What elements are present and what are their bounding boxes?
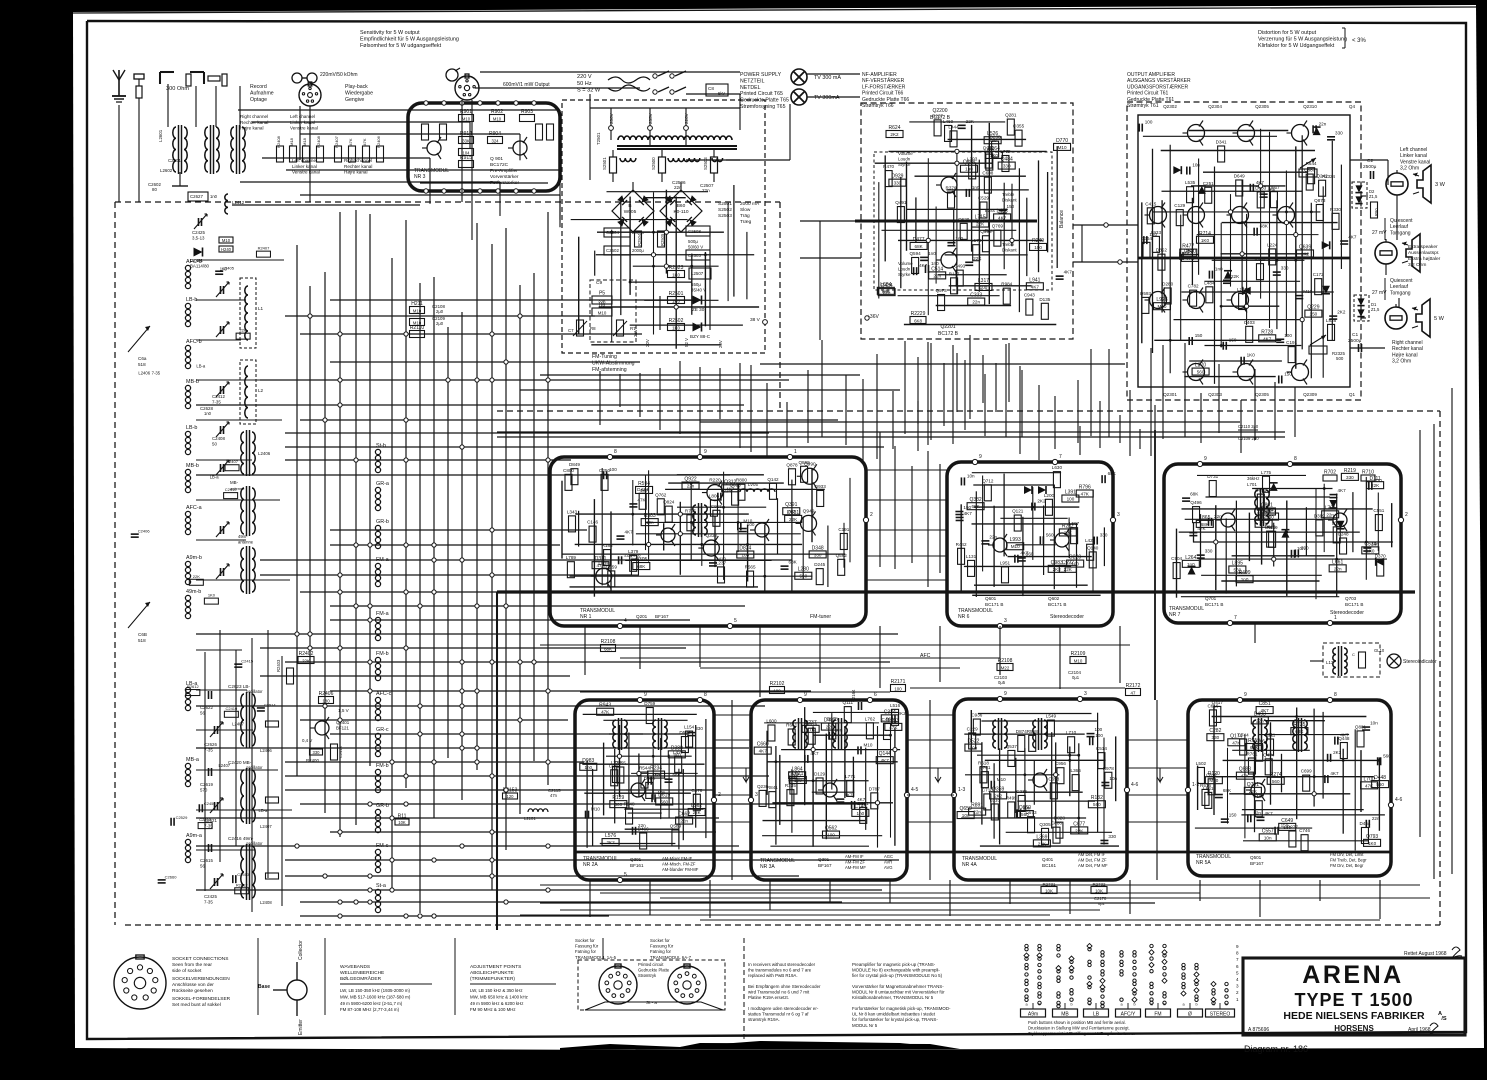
svg-text:Q869: Q869 (798, 460, 810, 465)
svg-text:4K7: 4K7 (1031, 284, 1040, 289)
svg-text:C2425: C2425 (204, 894, 217, 899)
svg-text:LB-a: LB-a (196, 363, 206, 368)
svg-text:R2408: R2408 (316, 135, 321, 148)
svg-text:Q355: Q355 (1013, 124, 1025, 129)
svg-text:D277: D277 (1287, 824, 1298, 829)
svg-text:2K2: 2K2 (1037, 499, 1046, 504)
svg-text:Vorverstärker für Magnettonabn: Vorverstärker für Magnettonabnehmer TRAN… (852, 984, 944, 989)
svg-text:FM-Tuning: FM-Tuning (592, 354, 617, 360)
svg-text:Q602: Q602 (1048, 596, 1060, 601)
svg-text:518: 518 (138, 638, 146, 643)
svg-text:HEDE NIELSENS FABRIKER: HEDE NIELSENS FABRIKER (1283, 1010, 1425, 1022)
svg-text:R544: R544 (639, 766, 650, 771)
svg-text:7-35: 7-35 (204, 900, 213, 905)
svg-text:M22: M22 (1001, 666, 1010, 671)
svg-text:NETDEL: NETDEL (740, 85, 761, 91)
svg-text:C2553: C2553 (237, 872, 250, 877)
svg-text:150: 150 (1229, 813, 1237, 818)
svg-text:Set med bunt af sokkel: Set med bunt af sokkel (172, 1002, 221, 1008)
svg-text:68K: 68K (1108, 471, 1117, 476)
svg-text:330: 330 (1003, 164, 1011, 169)
svg-text:BF167: BF167 (1250, 861, 1264, 866)
svg-text:b: b (1102, 1003, 1104, 1007)
svg-text:Q142: Q142 (767, 477, 779, 482)
svg-text:Aufnahme: Aufnahme (250, 90, 274, 96)
svg-text:3: 3 (1004, 618, 1007, 624)
svg-text:TYPE T 1500: TYPE T 1500 (1294, 990, 1413, 1010)
svg-text:330: 330 (313, 750, 321, 755)
svg-text:R565: R565 (745, 565, 756, 570)
svg-text:M10: M10 (598, 311, 607, 316)
svg-text:Aussenlautspr.: Aussenlautspr. (1408, 250, 1439, 256)
svg-text:L762: L762 (865, 716, 876, 721)
svg-text:FM 87-108 MHz (2,77-: FM 87-108 MHz (2,77-3,44 m) (340, 1007, 400, 1012)
svg-text:TRANSMODUL: TRANSMODUL (414, 168, 449, 174)
svg-text:10n: 10n (962, 813, 970, 818)
svg-text:L224: L224 (1267, 242, 1278, 247)
svg-text:Q2302: Q2302 (1163, 104, 1177, 109)
svg-text:Q703: Q703 (1345, 596, 1357, 601)
svg-text:R2110: R2110 (410, 325, 425, 331)
svg-text:FM: FM (1154, 1012, 1161, 1018)
svg-text:9: 9 (1244, 692, 1247, 698)
svg-text:25V: 25V (633, 329, 638, 337)
svg-text:B60: B60 (677, 203, 686, 209)
svg-text:C2502: C2502 (606, 248, 619, 253)
svg-text:80: 80 (152, 187, 157, 192)
svg-text:HORSENS: HORSENS (1334, 1024, 1374, 1033)
svg-text:Left channel: Left channel (290, 114, 315, 119)
svg-text:L941: L941 (1029, 277, 1040, 283)
svg-text:Socket for: Socket for (650, 938, 670, 943)
svg-text:Træg: Træg (740, 219, 752, 225)
svg-text:9: 9 (1236, 944, 1239, 949)
svg-text:C478: C478 (691, 788, 702, 793)
svg-text:Q382: Q382 (969, 497, 981, 503)
svg-text:10K: 10K (398, 820, 406, 825)
svg-text:LB-b: LB-b (186, 425, 197, 431)
svg-text:C2456: C2456 (204, 801, 217, 806)
svg-text:9: 9 (644, 692, 647, 698)
svg-text:C699: C699 (1301, 769, 1312, 774)
svg-text:Q949: Q949 (803, 508, 815, 514)
svg-text:Q922: Q922 (684, 477, 696, 483)
svg-text:22n: 22n (1319, 121, 1327, 126)
svg-text:TV 300mA: TV 300mA (814, 95, 840, 101)
svg-text:Styrke: Styrke (898, 272, 911, 277)
svg-text:47K: 47K (1081, 491, 1090, 496)
svg-text:1-3: 1-3 (958, 787, 965, 793)
svg-text:1n0: 1n0 (928, 251, 936, 256)
svg-text:C886: C886 (1051, 821, 1062, 826)
svg-text:4-6: 4-6 (1395, 797, 1402, 803)
svg-text:8: 8 (1236, 951, 1239, 956)
svg-text:BF167: BF167 (655, 614, 669, 619)
svg-text:AFC-a: AFC-a (186, 505, 202, 511)
svg-text:L366: L366 (1071, 768, 1082, 773)
svg-text:S = 32 W: S = 32 W (577, 88, 601, 94)
svg-text:300 Ohm: 300 Ohm (166, 86, 189, 92)
svg-text:560: 560 (660, 799, 668, 804)
svg-text:22K: 22K (1231, 274, 1240, 279)
svg-text:NF-VERSTÄRKER: NF-VERSTÄRKER (862, 77, 905, 84)
svg-text:AM-blander FM-MF: AM-blander FM-MF (662, 867, 699, 872)
svg-text:side of socket: side of socket (172, 968, 202, 974)
svg-text:7: 7 (1234, 615, 1237, 621)
svg-text:R714: R714 (1199, 231, 1211, 237)
svg-text:100: 100 (1095, 733, 1103, 738)
svg-text:1n0: 1n0 (1215, 267, 1223, 272)
svg-text:R2406: R2406 (376, 135, 381, 148)
svg-text:b: b (1071, 1003, 1073, 1007)
svg-text:100: 100 (1067, 497, 1075, 502)
svg-text:fier for crystal pick-up (TRAN: fier for crystal pick-up (TRANSMODULE No… (852, 973, 943, 978)
svg-text:ABGLEICHPUNKTE: ABGLEICHPUNKTE (470, 970, 514, 976)
svg-text:LV05: LV05 (748, 482, 758, 487)
svg-text:ADJUSTMENT POINTS: ADJUSTMENT POINTS (470, 964, 521, 970)
svg-text:3,2 Ohm: 3,2 Ohm (1408, 262, 1426, 268)
svg-text:0μ1: 0μ1 (1072, 675, 1080, 680)
svg-text:GL10: GL10 (1374, 648, 1385, 653)
svg-text:R2102: R2102 (770, 681, 785, 687)
svg-text:Pre-Amplifier: Pre-Amplifier (490, 168, 518, 174)
svg-text:AUSGANGS VERSTÄRKER: AUSGANGS VERSTÄRKER (1127, 77, 1191, 84)
svg-text:L303: L303 (967, 156, 978, 161)
svg-text:C251: C251 (1203, 181, 1214, 186)
svg-text:C235: C235 (1016, 789, 1027, 794)
svg-text:Linker kanal: Linker kanal (1400, 153, 1427, 159)
svg-text:L538: L538 (598, 561, 609, 567)
svg-text:GR-a: GR-a (376, 481, 389, 487)
svg-text:Rechter kanal: Rechter kanal (344, 164, 372, 169)
svg-text:C172: C172 (1313, 272, 1324, 277)
svg-text:L369: L369 (1036, 834, 1047, 840)
svg-text:Verzerrung für 5 W Ausgangslei: Verzerrung für 5 W Ausgangsleistung (1258, 37, 1347, 43)
svg-text:R618: R618 (978, 760, 989, 765)
svg-text:L549: L549 (1046, 714, 1057, 719)
svg-text:22n: 22n (1334, 566, 1342, 571)
svg-text:7: 7 (1059, 454, 1062, 460)
svg-text:C2503: C2503 (688, 253, 701, 258)
svg-text:Q301: Q301 (630, 857, 642, 862)
svg-text:Q496: Q496 (1190, 500, 1202, 505)
svg-text:2: 2 (870, 512, 873, 518)
svg-text:D341: D341 (1216, 140, 1227, 145)
svg-text:A9m-b: A9m-b (186, 555, 202, 561)
svg-text:D522: D522 (967, 739, 979, 745)
svg-text:MB-b: MB-b (186, 463, 199, 469)
svg-text:R841: R841 (767, 785, 778, 790)
svg-text:150: 150 (1195, 333, 1203, 338)
svg-text:UDGANGSFORSTÆRKER: UDGANGSFORSTÆRKER (1127, 84, 1189, 90)
svg-text:10n: 10n (1264, 835, 1272, 840)
svg-text:L2601: L2601 (158, 129, 163, 142)
svg-text:L771: L771 (845, 774, 856, 779)
svg-text:C915: C915 (711, 504, 722, 509)
svg-text:R8: R8 (590, 326, 596, 331)
svg-text:Play-back: Play-back (345, 84, 368, 90)
svg-text:1n0: 1n0 (584, 765, 592, 770)
svg-text:5: 5 (1236, 970, 1239, 975)
svg-text:L562: L562 (691, 803, 702, 809)
svg-text:D448: D448 (1374, 775, 1386, 781)
svg-text:ARENA: ARENA (1302, 961, 1403, 989)
svg-text:M10: M10 (863, 742, 872, 747)
svg-text:560: 560 (1383, 753, 1391, 758)
svg-text:10n: 10n (1192, 163, 1200, 168)
svg-text:Q601: Q601 (985, 596, 997, 601)
svg-text:Klirfaktor for 5 W Udgangseffe: Klirfaktor for 5 W Udgangseffekt (1258, 43, 1335, 49)
svg-text:BC172 B: BC172 B (938, 331, 959, 337)
svg-text:A9m-a: A9m-a (186, 833, 202, 839)
svg-text:35/40 V: 35/40 V (691, 288, 706, 293)
svg-text:C2: C2 (1367, 158, 1373, 164)
svg-text:Q305: Q305 (1039, 822, 1051, 827)
svg-text:36kHz: 36kHz (1247, 476, 1259, 481)
svg-text:560: 560 (1197, 370, 1205, 375)
svg-text:47: 47 (1131, 691, 1136, 696)
svg-text:3,2 Ohm: 3,2 Ohm (1392, 359, 1411, 365)
svg-text:BC171 B: BC171 B (1345, 602, 1363, 607)
svg-text:Q121: Q121 (1012, 509, 1024, 514)
svg-text:b: b (1164, 1003, 1166, 1007)
svg-text:Q229: Q229 (1307, 305, 1319, 311)
svg-text:R2407: R2407 (334, 135, 339, 148)
svg-text:Q111: Q111 (843, 700, 854, 705)
svg-text:68K: 68K (789, 560, 798, 565)
svg-text:WAVEBANDS: WAVEBANDS (340, 964, 370, 970)
svg-text:Q501: Q501 (1250, 855, 1262, 860)
svg-text:A 875696: A 875696 (1248, 1027, 1269, 1033)
svg-text:22n: 22n (638, 823, 646, 828)
svg-text:NR 4A: NR 4A (962, 862, 977, 868)
svg-text:R132: R132 (1091, 795, 1103, 801)
svg-text:(TRIMMEPUNKTER): (TRIMMEPUNKTER) (470, 976, 515, 982)
svg-text:WELLENBEREICHE: WELLENBEREICHE (340, 970, 384, 976)
svg-text:2K2: 2K2 (606, 840, 615, 845)
svg-text:b: b (1196, 1003, 1198, 1007)
svg-text:2K2: 2K2 (1337, 310, 1346, 315)
svg-text:Loudn: Loudn (898, 157, 911, 162)
svg-text:150: 150 (1263, 510, 1271, 515)
svg-text:R800: R800 (736, 478, 747, 483)
svg-text:100: 100 (827, 833, 835, 838)
svg-text:FM 90 MHz & 100 MHz: FM 90 MHz & 100 MHz (470, 1007, 516, 1012)
svg-text:L2406: L2406 (138, 370, 150, 375)
svg-text:3 W: 3 W (1435, 182, 1446, 188)
svg-text:MODUL Nr 8 umtauschbar mit Vor: MODUL Nr 8 umtauschbar mit Vorverstärker… (852, 990, 945, 995)
svg-text:Q281: Q281 (1005, 113, 1017, 118)
svg-text:C2601: C2601 (168, 158, 181, 163)
svg-text:Träg: Träg (740, 213, 750, 219)
svg-text:oscillator: oscillator (246, 841, 263, 846)
svg-text:C943: C943 (1024, 293, 1035, 298)
svg-text:324: 324 (492, 139, 500, 144)
svg-text:L684: L684 (880, 282, 891, 288)
svg-text:4-5: 4-5 (911, 787, 918, 793)
svg-text:C2508: C2508 (688, 229, 701, 234)
svg-text:R2403: R2403 (276, 659, 281, 672)
svg-text:C658: C658 (1048, 776, 1059, 781)
svg-text:M10: M10 (413, 309, 422, 314)
svg-text:L270: L270 (1195, 363, 1206, 369)
svg-text:Q1: Q1 (1349, 392, 1356, 397)
svg-text:22K: 22K (789, 517, 798, 522)
svg-text:4K7: 4K7 (1330, 771, 1339, 776)
svg-text:3: 3 (1084, 691, 1087, 697)
svg-text:BF167: BF167 (818, 863, 832, 868)
svg-text:L1: L1 (258, 306, 264, 311)
svg-text:Q2305: Q2305 (1255, 104, 1269, 109)
svg-text:Distortion for 5 W output: Distortion for 5 W output (1258, 30, 1317, 36)
svg-text:R117: R117 (949, 271, 960, 276)
svg-text:Z1,5: Z1,5 (1369, 194, 1378, 199)
svg-text:Kristalltonabnehmer, TRANSMODU: Kristalltonabnehmer, TRANSMODUL Nr 5 (852, 995, 934, 1000)
svg-text:5kV: 5kV (718, 91, 725, 96)
svg-text:Fassung für: Fassung für (575, 944, 599, 949)
svg-text:L2406: L2406 (258, 451, 271, 456)
svg-text:Q4: Q4 (1349, 104, 1356, 109)
svg-text:S2500: S2500 (651, 157, 656, 170)
svg-text:Printed Circuit T61: Printed Circuit T61 (1127, 91, 1169, 97)
svg-text:LB: LB (1093, 1012, 1100, 1018)
svg-text:Gedruckte Platte T66: Gedruckte Platte T66 (862, 97, 909, 103)
svg-text:Gedruckte Platte: Gedruckte Platte (638, 967, 670, 972)
svg-text:L13: L13 (1326, 660, 1334, 665)
svg-text:100: 100 (1284, 333, 1292, 338)
svg-text:Printed Circuit T65: Printed Circuit T65 (740, 91, 783, 97)
svg-text:1-2: 1-2 (1192, 782, 1199, 788)
svg-text:330: 330 (1205, 549, 1213, 554)
svg-text:68K: 68K (604, 647, 612, 652)
svg-text:C2619: C2619 (200, 782, 213, 787)
svg-text:Left channel: Left channel (292, 158, 317, 163)
svg-text:C2627: C2627 (190, 194, 203, 199)
svg-text:Right channel: Right channel (240, 114, 268, 119)
svg-text:Q2310: Q2310 (1303, 104, 1317, 109)
svg-text:< 3%: < 3% (1352, 38, 1367, 44)
svg-text:St-a: St-a (376, 883, 386, 889)
svg-text:6K8: 6K8 (914, 319, 922, 324)
svg-text:4K7: 4K7 (1337, 488, 1346, 493)
svg-text:R2402: R2402 (299, 651, 314, 657)
svg-text:22K: 22K (976, 222, 985, 227)
svg-text:5: 5 (734, 618, 737, 624)
svg-text:MW, MB 517-1600 kHz (187-580: MW, MB 517-1600 kHz (187-580 m) (340, 994, 411, 999)
svg-text:T2501: T2501 (596, 132, 601, 145)
svg-text:Optage: Optage (250, 97, 267, 103)
svg-text:C1: C1 (1352, 332, 1358, 338)
svg-text:D824: D824 (739, 546, 751, 552)
svg-text:Venstre kanal: Venstre kanal (290, 126, 318, 131)
svg-text:the transmodules no 6 and 7 ar: the transmodules no 6 and 7 are (748, 968, 812, 973)
svg-text:BF161: BF161 (630, 863, 644, 868)
svg-text:D759: D759 (644, 701, 655, 706)
svg-text:AVG: AVG (884, 865, 893, 870)
svg-text:Højre kanal: Højre kanal (1392, 352, 1418, 358)
svg-text:33K: 33K (462, 139, 470, 144)
svg-text:NF-AMPLIFIER: NF-AMPLIFIER (862, 72, 897, 78)
svg-text:BC161: BC161 (1042, 863, 1056, 868)
svg-text:C551: C551 (1373, 508, 1384, 513)
svg-text:Preamplifier for magnetic pick: Preamplifier for magnetic pick-up (TRANS… (852, 962, 936, 967)
svg-text:100: 100 (773, 689, 781, 694)
svg-text:D454: D454 (1359, 821, 1370, 826)
svg-text:1: 1 (1334, 615, 1337, 621)
svg-text:L703: L703 (888, 718, 899, 724)
svg-text:L131: L131 (966, 554, 977, 559)
svg-text:LB-b: LB-b (186, 297, 197, 303)
svg-text:Q639: Q639 (1299, 244, 1311, 250)
svg-text:H2408: H2408 (276, 135, 281, 148)
svg-text:C851: C851 (1259, 701, 1271, 707)
svg-text:Z1,5: Z1,5 (1371, 307, 1380, 312)
svg-text:TV 300 mA: TV 300 mA (814, 75, 841, 81)
svg-text:L701: L701 (1247, 482, 1257, 487)
svg-text:Q594: Q594 (909, 251, 921, 256)
svg-text:/S: /S (1441, 1016, 1447, 1022)
svg-text:b: b (1226, 1003, 1228, 1007)
svg-text:Q2309: Q2309 (1303, 392, 1317, 397)
svg-text:150: 150 (1007, 204, 1015, 209)
svg-text:Q401: Q401 (1042, 857, 1054, 862)
svg-text:C2410: C2410 (225, 487, 238, 492)
svg-text:C2660: C2660 (165, 874, 178, 879)
svg-text:UKW-Abstimmung: UKW-Abstimmung (592, 360, 635, 366)
svg-text:L895: L895 (1232, 561, 1243, 567)
svg-text:C229: C229 (967, 726, 978, 731)
svg-text:1n0: 1n0 (210, 194, 218, 199)
svg-text:Tomgang: Tomgang (1390, 230, 1411, 236)
svg-text:2μ0: 2μ0 (436, 321, 444, 326)
svg-text:38 V: 38 V (750, 317, 761, 323)
svg-text:R90: R90 (1374, 208, 1379, 216)
svg-text:Q312: Q312 (724, 479, 736, 485)
svg-text:68K: 68K (882, 289, 891, 294)
svg-text:L661: L661 (1332, 559, 1343, 565)
svg-text:7: 7 (1236, 957, 1239, 962)
svg-text:D348: D348 (812, 545, 824, 551)
svg-text:NR 5A: NR 5A (1196, 860, 1211, 866)
svg-text:0,4 V: 0,4 V (302, 738, 312, 743)
svg-text:Q589: Q589 (670, 823, 682, 828)
svg-text:M10: M10 (462, 117, 471, 122)
svg-text:570: 570 (200, 788, 208, 793)
svg-text:8: 8 (1334, 692, 1337, 698)
svg-text:C6a: C6a (138, 356, 147, 361)
svg-text:Linker kanal: Linker kanal (292, 164, 317, 169)
svg-text:D787: D787 (869, 786, 880, 791)
svg-text:BC171 B: BC171 B (985, 602, 1003, 607)
svg-text:D380: D380 (671, 745, 683, 751)
svg-text:Fassung für: Fassung für (650, 944, 674, 949)
svg-text:4K7: 4K7 (1348, 235, 1357, 240)
svg-text:22K: 22K (240, 328, 247, 333)
svg-text:C2514: C2514 (264, 702, 277, 707)
svg-text:Leerlauf: Leerlauf (1390, 284, 1409, 290)
svg-text:4-6: 4-6 (1131, 782, 1138, 788)
svg-text:R2612: R2612 (236, 882, 249, 887)
svg-text:D929: D929 (891, 174, 903, 180)
svg-text:OUTPUT AMPLIFIER: OUTPUT AMPLIFIER (1127, 72, 1175, 78)
svg-text:Record: Record (250, 84, 267, 90)
svg-text:NR 6: NR 6 (958, 614, 970, 620)
svg-text:Leerlauf: Leerlauf (1390, 224, 1409, 230)
svg-text:UL Nr 8 kan umiddelbart indsæt: UL Nr 8 kan umiddelbart indsættes i sted… (852, 1012, 936, 1017)
svg-text:stattes Transmodul nr 6 og 7 a: stattes Transmodul nr 6 og 7 af (748, 1012, 809, 1017)
svg-text:560: 560 (1046, 532, 1054, 537)
svg-text:Q201: Q201 (636, 614, 648, 619)
